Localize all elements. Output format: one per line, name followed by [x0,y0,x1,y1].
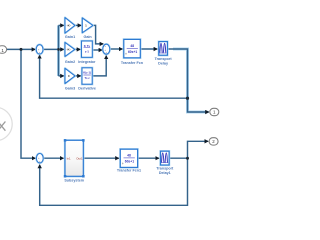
svg-text:48: 48 [130,44,134,48]
svg-text:1: 1 [1,48,4,53]
svg-text:60s+1: 60s+1 [128,50,137,54]
svg-text:Delay: Delay [158,61,169,65]
svg-text:Delay1: Delay1 [159,171,171,175]
svg-text:In1: In1 [67,156,71,160]
svg-text:60s+1: 60s+1 [125,159,134,163]
svg-text:Transfer Fcn1: Transfer Fcn1 [117,169,141,173]
svg-text:Ts z: Ts z [84,76,90,80]
svg-text:Out1: Out1 [76,156,83,160]
svg-text:Transfer Fcn: Transfer Fcn [121,61,144,65]
svg-text:Derivative: Derivative [78,87,96,91]
svg-text:Gain2: Gain2 [65,60,75,64]
svg-text:Gain: Gain [83,35,92,39]
svg-text:K Ts: K Ts [84,44,91,48]
svg-text:K(z-1): K(z-1) [83,70,91,74]
svg-text:Integrator: Integrator [78,60,96,64]
svg-text:Subsystem: Subsystem [64,179,84,183]
svg-text:-K-: -K- [67,24,71,28]
svg-text:-K-: -K- [67,48,71,52]
svg-text:z-1: z-1 [85,50,89,54]
svg-text:Gain3: Gain3 [65,87,75,91]
svg-text:Gain1: Gain1 [65,35,75,39]
svg-text:48: 48 [127,154,131,158]
